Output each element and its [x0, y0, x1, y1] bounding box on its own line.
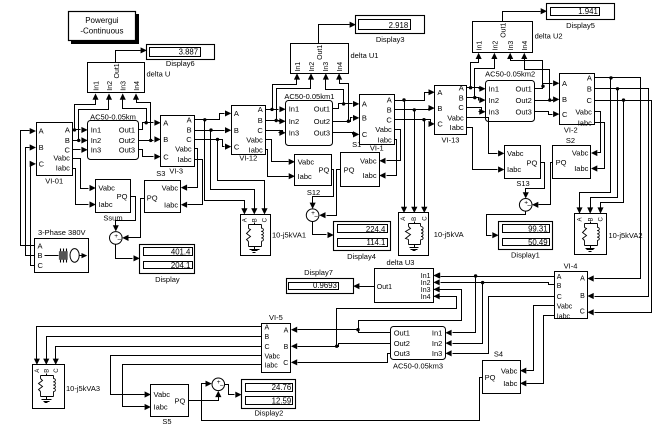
svg-text:3.887: 3.887 [179, 48, 199, 57]
svg-text:Ssum: Ssum [103, 213, 122, 222]
svg-text:Vabc: Vabc [557, 303, 573, 310]
svg-text:C: C [263, 217, 269, 222]
svg-text:A: A [578, 217, 584, 221]
svg-text:B: B [65, 136, 70, 145]
svg-text:C: C [234, 142, 240, 151]
svg-text:S4: S4 [494, 350, 503, 359]
svg-text:delta U1: delta U1 [351, 51, 379, 60]
svg-text:Out1: Out1 [114, 63, 121, 78]
svg-text:Vabc: Vabc [572, 149, 589, 158]
svg-text:delta U2: delta U2 [535, 31, 563, 40]
svg-text:Iabc: Iabc [56, 164, 70, 173]
svg-text:Out1: Out1 [516, 85, 532, 94]
svg-text:B: B [265, 334, 270, 341]
svg-text:C: C [599, 217, 605, 222]
svg-text:3-Phase 380V: 3-Phase 380V [38, 228, 86, 237]
svg-text:B: B [459, 93, 464, 102]
svg-text:A: A [35, 369, 41, 373]
svg-text:delta U3: delta U3 [387, 258, 415, 267]
svg-text:Iabc: Iabc [503, 379, 517, 388]
svg-text:In2: In2 [289, 117, 299, 126]
svg-text:VI-3: VI-3 [169, 166, 183, 175]
svg-text:A: A [387, 96, 392, 105]
svg-text:B: B [258, 116, 263, 125]
svg-text:In2: In2 [91, 136, 101, 145]
svg-text:Out1: Out1 [377, 284, 392, 291]
svg-text:Display3: Display3 [376, 35, 405, 44]
svg-text:Out2: Out2 [516, 96, 532, 105]
svg-text:12.59: 12.59 [272, 396, 292, 405]
svg-text:In3: In3 [489, 107, 499, 116]
svg-text:Iabc: Iabc [362, 171, 376, 180]
svg-text:Vabc: Vabc [162, 183, 179, 192]
svg-text:Iabc: Iabc [574, 164, 588, 173]
svg-text:−: − [117, 236, 121, 243]
svg-text:C: C [54, 368, 60, 373]
svg-text:Out1: Out1 [314, 105, 330, 114]
svg-text:C: C [562, 110, 568, 119]
svg-text:Vabc: Vabc [360, 157, 377, 166]
svg-text:In2: In2 [309, 62, 316, 72]
svg-text:Out3: Out3 [516, 107, 532, 116]
svg-text:AC50-0.05km2: AC50-0.05km2 [485, 70, 535, 79]
svg-text:PQ: PQ [318, 166, 329, 175]
svg-text:A: A [234, 109, 239, 118]
svg-text:2.918: 2.918 [389, 21, 409, 30]
svg-text:B: B [588, 217, 594, 221]
svg-text:A: A [562, 79, 567, 88]
svg-text:AC50-0.05km3: AC50-0.05km3 [393, 361, 443, 370]
svg-text:C: C [39, 160, 45, 169]
svg-text:A: A [258, 105, 263, 114]
svg-text:Out2: Out2 [314, 117, 330, 126]
svg-text:24.76: 24.76 [272, 383, 292, 392]
svg-text:Display1: Display1 [511, 250, 540, 259]
svg-text:C: C [423, 216, 429, 221]
svg-text:Vabc: Vabc [375, 125, 392, 134]
svg-text:B: B [580, 293, 585, 300]
svg-text:C: C [186, 135, 192, 144]
svg-text:1.941: 1.941 [578, 7, 598, 16]
svg-text:Vabc: Vabc [175, 145, 192, 154]
svg-text:A: A [284, 327, 289, 334]
svg-text:B: B [437, 104, 442, 113]
svg-text:In3: In3 [508, 41, 515, 51]
svg-text:Vabc: Vabc [98, 184, 115, 193]
svg-text:B: B [253, 218, 259, 222]
svg-text:In2: In2 [107, 81, 114, 91]
svg-text:In3: In3 [323, 62, 330, 72]
svg-text:Display6: Display6 [166, 59, 195, 68]
svg-text:Vabc: Vabc [507, 149, 524, 158]
svg-text:A: A [459, 83, 464, 92]
svg-text:VI-13: VI-13 [442, 136, 460, 145]
svg-text:In4: In4 [421, 294, 431, 301]
svg-text:A: A [587, 74, 592, 83]
svg-text:Vabc: Vabc [501, 366, 518, 375]
svg-text:Out3: Out3 [394, 349, 410, 358]
svg-text:PQ: PQ [147, 194, 158, 203]
svg-text:Iabc: Iabc [298, 172, 312, 181]
svg-text:Vabc: Vabc [265, 353, 281, 360]
svg-text:B: B [284, 344, 289, 351]
svg-text:Out2: Out2 [119, 136, 135, 145]
svg-text:Vabc: Vabc [246, 136, 263, 145]
svg-text:C: C [265, 344, 270, 351]
svg-text:B: B [39, 143, 44, 152]
svg-text:PQ: PQ [485, 373, 496, 382]
svg-text:10-j5kVA1: 10-j5kVA1 [272, 230, 306, 239]
svg-text:In1: In1 [93, 81, 100, 91]
svg-text:Display4: Display4 [347, 252, 376, 261]
svg-text:−: − [220, 383, 224, 390]
svg-text:114.1: 114.1 [366, 238, 385, 247]
svg-text:VI-1: VI-1 [370, 144, 384, 153]
svg-text:Iabc: Iabc [557, 314, 571, 321]
svg-text:In4: In4 [522, 41, 529, 51]
svg-text:C: C [386, 115, 392, 124]
svg-text:VI-4: VI-4 [564, 261, 578, 270]
svg-text:S12: S12 [307, 188, 320, 197]
svg-text:In4: In4 [134, 81, 141, 91]
svg-text:B: B [587, 85, 592, 94]
svg-text:In1: In1 [295, 62, 302, 72]
svg-text:In1: In1 [477, 41, 484, 51]
svg-text:401.4: 401.4 [171, 248, 191, 257]
svg-text:B: B [557, 283, 562, 290]
svg-text:AC50-0.05km: AC50-0.05km [90, 112, 136, 121]
svg-text:A: A [437, 88, 442, 97]
svg-text:VI-2: VI-2 [564, 126, 578, 135]
svg-text:In3: In3 [121, 81, 128, 91]
svg-text:In3: In3 [432, 349, 442, 358]
svg-text:B: B [387, 106, 392, 115]
svg-text:S2: S2 [566, 136, 575, 145]
svg-text:PQ: PQ [117, 192, 128, 201]
svg-text:Iabc: Iabc [507, 165, 521, 174]
svg-text:0.9693: 0.9693 [313, 281, 337, 290]
svg-text:A: A [65, 126, 70, 135]
svg-text:Out3: Out3 [314, 129, 330, 138]
svg-text:A: A [362, 100, 367, 109]
svg-text:50.49: 50.49 [528, 238, 548, 247]
svg-text:In1: In1 [91, 126, 101, 135]
svg-text:In3: In3 [289, 129, 299, 138]
svg-text:Out2: Out2 [394, 339, 410, 348]
svg-text:B: B [362, 114, 367, 123]
svg-text:Iabc: Iabc [578, 119, 592, 128]
svg-text:B: B [412, 217, 418, 221]
svg-text:C: C [557, 294, 562, 301]
svg-text:−: − [314, 214, 318, 221]
svg-text:VI-12: VI-12 [239, 153, 257, 162]
svg-text:Display5: Display5 [566, 21, 595, 30]
svg-text:In2: In2 [489, 96, 499, 105]
svg-text:AC50-0.05km1: AC50-0.05km1 [284, 92, 334, 101]
svg-text:C: C [283, 360, 288, 367]
svg-text:C: C [38, 261, 44, 270]
svg-text:In1: In1 [289, 105, 299, 114]
svg-text:B: B [562, 95, 567, 104]
svg-text:In1: In1 [489, 85, 499, 94]
svg-text:In4: In4 [337, 62, 344, 72]
svg-text:Out1: Out1 [119, 126, 135, 135]
svg-text:In1: In1 [432, 329, 442, 338]
svg-text:C: C [458, 103, 464, 112]
svg-text:Vabc: Vabc [154, 390, 171, 399]
svg-text:In3: In3 [91, 146, 101, 155]
svg-text:C: C [257, 126, 263, 135]
svg-text:PQ: PQ [527, 159, 538, 168]
svg-text:C: C [163, 152, 169, 161]
svg-text:PQ: PQ [175, 396, 186, 405]
svg-text:A: A [163, 118, 168, 127]
svg-text:A: A [38, 241, 43, 250]
svg-text:224.4: 224.4 [366, 225, 386, 234]
svg-text:Out1: Out1 [394, 329, 410, 338]
svg-text:10-j5kVA3: 10-j5kVA3 [66, 384, 100, 393]
svg-text:Out1: Out1 [500, 23, 507, 38]
svg-text:A: A [557, 274, 562, 281]
svg-text:In2: In2 [421, 280, 431, 287]
svg-text:VI-01: VI-01 [45, 176, 63, 185]
svg-text:−: − [527, 203, 531, 210]
svg-text:-Continuous: -Continuous [80, 26, 123, 35]
svg-text:Vabc: Vabc [298, 158, 315, 167]
svg-text:C: C [362, 130, 368, 139]
svg-text:A: A [39, 127, 44, 136]
svg-text:99.31: 99.31 [528, 225, 548, 234]
svg-text:S13: S13 [516, 179, 529, 188]
svg-text:204.1: 204.1 [171, 261, 191, 270]
svg-text:C: C [580, 309, 585, 316]
svg-text:Iabc: Iabc [164, 200, 178, 209]
svg-text:Display2: Display2 [255, 409, 284, 418]
svg-text:PQ: PQ [344, 166, 355, 175]
svg-text:A: A [187, 116, 192, 125]
svg-text:Out3: Out3 [119, 146, 135, 155]
svg-text:A: A [243, 218, 249, 222]
svg-text:PQ: PQ [556, 158, 567, 167]
svg-text:VI-5: VI-5 [269, 313, 283, 322]
svg-text:B: B [234, 126, 239, 135]
svg-text:In2: In2 [432, 339, 442, 348]
svg-text:C: C [437, 120, 443, 129]
svg-text:S3: S3 [156, 169, 165, 178]
svg-text:Iabc: Iabc [178, 155, 192, 164]
svg-text:Iabc: Iabc [265, 363, 279, 370]
svg-text:In2: In2 [492, 41, 499, 51]
svg-text:Iabc: Iabc [98, 200, 112, 209]
svg-text:S5: S5 [162, 417, 171, 426]
svg-text:A: A [401, 217, 407, 221]
svg-text:A: A [265, 325, 270, 332]
svg-text:Powergui: Powergui [85, 16, 119, 25]
svg-text:Iabc: Iabc [154, 403, 168, 412]
svg-text:delta U: delta U [147, 69, 171, 78]
svg-text:Iabc: Iabc [450, 123, 464, 132]
svg-text:B: B [38, 251, 43, 260]
svg-text:Vabc: Vabc [575, 107, 592, 116]
svg-text:C: C [586, 96, 592, 105]
svg-text:B: B [45, 369, 51, 373]
svg-text:B: B [163, 135, 168, 144]
svg-text:Vabc: Vabc [447, 114, 464, 123]
svg-text:Out1: Out1 [317, 45, 324, 60]
svg-text:10-j5kVA2: 10-j5kVA2 [609, 231, 643, 240]
svg-text:A: A [580, 276, 585, 283]
svg-text:Display: Display [155, 275, 180, 284]
svg-text:Display7: Display7 [304, 268, 333, 277]
svg-text:B: B [187, 126, 192, 135]
svg-text:10-j5kVA: 10-j5kVA [434, 230, 464, 239]
svg-text:Vabc: Vabc [53, 154, 70, 163]
